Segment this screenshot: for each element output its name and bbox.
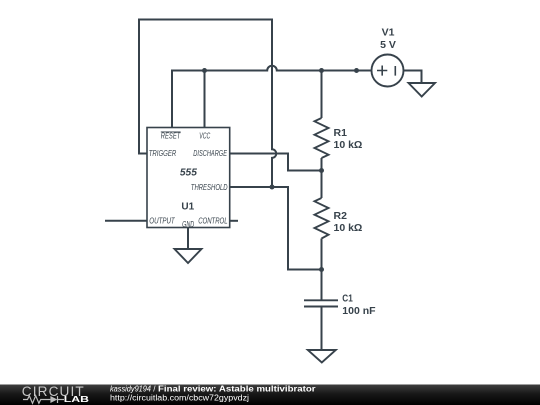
svg-text:THRESHOLD: THRESHOLD [191,182,228,192]
resistor R2 [315,198,363,239]
wire trigger net (top loop, hops over discharge wire) [139,20,276,188]
wire V1 left lead [357,70,372,72]
svg-text:LAB: LAB [64,395,90,404]
svg-text:Final review: Astable multivib: Final review: Astable multivibrator [158,384,316,393]
wire R2 bottom to C1 [321,239,323,301]
svg-text:555: 555 [180,167,197,178]
svg-text:kassidy9194: kassidy9194 [110,384,151,393]
wire output stub [105,220,147,222]
footer bar [0,385,540,405]
svg-text:10 kΩ: 10 kΩ [334,139,363,151]
node junction (threshold tap) [270,185,275,190]
ground (C1 bottom) [308,350,336,363]
svg-text:R1: R1 [334,127,348,139]
wire vcc pin drop [204,71,206,129]
resistor R1 [315,118,363,158]
wire R1 bottom to R2 top [321,158,323,198]
ground (V1) [409,83,436,97]
node junction (R1/R2/discharge) [319,168,324,173]
wire R1 top lead [321,71,323,119]
svg-text:10 kΩ: 10 kΩ [334,222,363,234]
node junction (V1 terminal) [354,68,359,73]
node junction (vcc tap) [202,68,207,73]
wire control stub [230,220,238,222]
ground (U1 gnd pin) [175,249,202,263]
svg-text:http://circuitlab.com/cbcw72gy: http://circuitlab.com/cbcw72gypvdzj [110,393,249,402]
svg-text:CONTROL: CONTROL [198,215,228,225]
svg-text:DISCHARGE: DISCHARGE [193,148,227,158]
svg-text:TRIGGER: TRIGGER [149,148,177,158]
svg-text:GND: GND [182,219,194,229]
IC U1 555 timer body [147,128,230,229]
svg-text:100 nF: 100 nF [342,305,376,317]
svg-text:R2: R2 [334,210,348,222]
wire discharge net [230,154,322,171]
voltage source V1 [372,27,404,87]
svg-text:U1: U1 [181,202,194,213]
svg-text:C1: C1 [342,293,353,305]
svg-text:V1: V1 [382,27,395,39]
wire C1 bottom lead [321,307,323,351]
capacitor C1 [304,293,376,317]
logo resistor+diode glyph [23,396,64,404]
svg-text:VCC: VCC [199,131,211,141]
wire gnd pin drop [187,228,189,250]
node junction (R2/C1/threshold) [319,267,324,272]
wire threshold net [230,187,322,270]
node junction (R1 branch) [319,68,324,73]
svg-text:OUTPUT: OUTPUT [149,215,175,225]
wire vcc net (horizontal, hops over vertical) [172,66,357,128]
wire V1 right lead [404,71,422,84]
svg-text:5 V: 5 V [380,39,396,51]
